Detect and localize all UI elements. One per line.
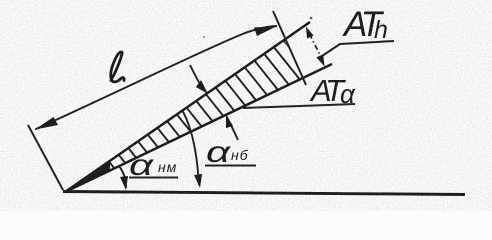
- alpha-nb underline: [205, 165, 256, 167]
- arrowhead right of dimension l: [254, 26, 277, 36]
- alpha-nm line (lower ray): [65, 64, 332, 192]
- alpha-nb arc arrowhead: [194, 174, 202, 188]
- ATh dimension: lower tick arrow: [316, 54, 324, 66]
- alpha-nm underline: [129, 177, 178, 179]
- ATh dimension dash-dot connector: [310, 34, 322, 57]
- ATh leader/underline: [322, 41, 394, 56]
- arrowhead left of dimension l: [35, 117, 58, 130]
- stray dot: [310, 17, 313, 20]
- alpha-nb arc: [182, 110, 199, 185]
- letter l (script ell): [111, 52, 124, 82]
- left extension line: [28, 125, 63, 190]
- pointer arrow P1 at upper ray: [190, 65, 201, 86]
- dimension line l: [35, 26, 277, 130]
- AT-alpha leader line: [243, 104, 355, 108]
- base line: [63, 192, 465, 195]
- wedge apex solid sliver: [65, 161, 110, 192]
- alpha-nm arc: [119, 166, 126, 188]
- right cut line (extension line at end of l): [273, 11, 306, 85]
- pointer arrow P2 at lower ray: [231, 125, 238, 140]
- wedge hatching: [88, 32, 337, 186]
- ATh dimension: upper tick arrow: [306, 27, 314, 39]
- alpha-nb line (upper ray): [65, 22, 310, 192]
- alpha-nm arc arrowhead: [120, 176, 128, 190]
